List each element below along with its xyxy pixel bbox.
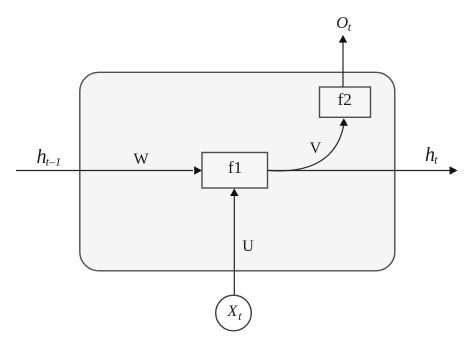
svg-text:t–1: t–1 xyxy=(46,154,61,168)
svg-text:f1: f1 xyxy=(228,158,242,177)
node f2 box xyxy=(320,87,371,117)
wire: output line from f1 to h_t xyxy=(268,170,451,172)
wire: X_t up into f1 xyxy=(233,195,235,295)
arrowhead O_t xyxy=(339,35,347,43)
wire: f2 output up to O_t xyxy=(342,42,344,88)
wire: curve from f1 output up to f2 xyxy=(268,125,344,171)
svg-text:W: W xyxy=(134,151,150,168)
arrowhead into f1 left xyxy=(194,166,202,174)
svg-text:V: V xyxy=(310,140,322,157)
wire: input line h_t-1 into f1 xyxy=(16,170,193,172)
input node X_t circle xyxy=(216,295,252,331)
svg-text:t: t xyxy=(348,20,352,34)
svg-text:f2: f2 xyxy=(338,90,352,109)
arrowhead h_t xyxy=(450,166,458,174)
arrowhead into f1 bottom xyxy=(230,188,238,196)
RNN cell outer rounded box xyxy=(80,72,395,270)
svg-text:O: O xyxy=(336,13,348,32)
svg-text:X: X xyxy=(227,303,239,320)
arrowhead into f2 bottom xyxy=(340,118,348,126)
svg-text:U: U xyxy=(242,238,254,255)
svg-text:t: t xyxy=(434,153,438,167)
node f1 box xyxy=(202,153,268,189)
